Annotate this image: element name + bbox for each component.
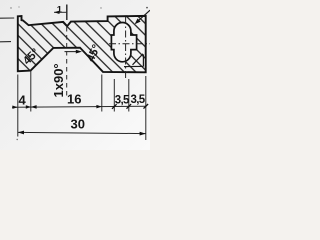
extension line at slot left wall bbox=[113, 79, 115, 112]
arrowhead at left edge (dim 4) bbox=[12, 106, 17, 109]
dashed extension line of V-groove axis bbox=[66, 27, 68, 99]
leader line from top-right corner bbox=[136, 10, 150, 22]
extension line at part right edge bbox=[145, 76, 147, 140]
arrowhead of slope leader bbox=[76, 50, 82, 54]
svg-text:1x90°: 1x90° bbox=[51, 63, 66, 97]
horizontal centerline of slot bbox=[109, 43, 150, 45]
dimension line 1 bbox=[54, 11, 67, 13]
extension line at notch right corner bbox=[101, 75, 103, 112]
tick at slot axis bbox=[127, 104, 132, 109]
svg-text:16: 16 bbox=[67, 92, 81, 107]
svg-text:30: 30 bbox=[71, 117, 85, 132]
dimension line row 4 / 16 / 3,5 / 3,5 bbox=[12, 106, 146, 107]
leader stub from left edge (lower) bbox=[0, 41, 11, 43]
ledge lines below slot (bottom-right detail) bbox=[124, 54, 143, 67]
vertical centerline of slot bbox=[125, 17, 127, 78]
tick at right edge bbox=[144, 104, 149, 109]
right arrowhead of dim 30 bbox=[140, 132, 146, 136]
double arrowhead at notch left corner bbox=[31, 105, 37, 109]
left arrowhead of dim 30 bbox=[18, 131, 24, 135]
svg-text:3,5: 3,5 bbox=[115, 94, 130, 106]
keyhole-shaped slot (ball channel) in right section bbox=[111, 23, 136, 62]
extension line at slot axis bbox=[128, 79, 130, 112]
part cross-section outline with hatching (rail with top lip, chamfer, V-groove, step and central trapezoidal notch) bbox=[18, 16, 146, 72]
arrowhead at notch right corner (dim 16) bbox=[96, 105, 101, 109]
arrowhead of top-right leader bbox=[135, 18, 141, 24]
svg-text:4: 4 bbox=[19, 93, 27, 108]
arrowhead of dimension 1 bbox=[54, 11, 60, 14]
extension line at notch left corner bbox=[30, 71, 32, 112]
tick at slot left wall bbox=[112, 104, 117, 109]
extension line at part left edge bbox=[17, 75, 19, 137]
leader line to right notch slope bbox=[65, 51, 78, 53]
scan specks bbox=[10, 7, 11, 8]
extension line of dimension 1 bbox=[66, 5, 68, 21]
dimension line 30 bbox=[18, 132, 146, 133]
leader stub from left edge (upper) bbox=[0, 17, 14, 19]
svg-text:3,5: 3,5 bbox=[131, 94, 146, 106]
svg-text:1: 1 bbox=[57, 5, 63, 16]
